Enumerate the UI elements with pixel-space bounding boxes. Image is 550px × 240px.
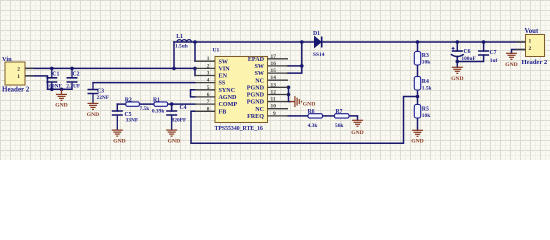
left pin numbers: [207, 56, 210, 112]
junction C7 top: [482, 40, 486, 44]
capacitor C2: [66, 68, 81, 89]
svg-text:PGND: PGND: [247, 93, 265, 99]
svg-text:R1: R1: [153, 97, 160, 103]
svg-text:SW: SW: [219, 59, 228, 65]
svg-text:14: 14: [271, 75, 277, 81]
resistor R2: [125, 97, 150, 112]
junction riser top wire: [300, 40, 304, 44]
pin 11 PGND: [268, 101, 289, 103]
wire top SW net: [174, 41, 314, 43]
svg-text:GND: GND: [55, 102, 67, 108]
svg-text:8: 8: [207, 106, 210, 112]
svg-text:2: 2: [17, 66, 20, 72]
right pin numbers: [271, 54, 277, 117]
wire Vin net horizontal: [25, 67, 195, 69]
svg-text:SW: SW: [255, 64, 264, 70]
resistor R5: [414, 105, 430, 119]
pin 5 SYNC: [195, 89, 215, 91]
ground at Vout pin2: [506, 53, 517, 59]
capacitor C7: [478, 50, 497, 64]
pin 14 NC: [268, 79, 289, 81]
svg-text:R3: R3: [422, 53, 429, 59]
wire EN tie to VIN: [194, 68, 196, 75]
svg-text:PGND: PGND: [247, 85, 265, 91]
ground below C5: [112, 130, 123, 136]
svg-text:R6: R6: [308, 109, 315, 115]
wire Vout pin2 to gnd: [512, 50, 526, 54]
wire FREQ to R6: [288, 115, 308, 117]
svg-text:PGND: PGND: [247, 100, 265, 106]
pin 4 SS: [195, 82, 215, 84]
pin 6 AGND: [195, 96, 215, 98]
pin 9 FREQ: [268, 115, 289, 117]
svg-text:1.5k: 1.5k: [422, 85, 432, 91]
pin 2 VIN: [195, 67, 215, 69]
pin 3 EN: [195, 75, 215, 77]
resistor R3: [414, 52, 430, 66]
svg-text:NC: NC: [255, 107, 264, 113]
svg-text:100NF: 100NF: [47, 83, 63, 89]
svg-text:AGND: AGND: [219, 95, 238, 101]
ground below C6: [452, 67, 463, 73]
pin 12 PGND: [268, 94, 289, 96]
svg-text:SYNC: SYNC: [219, 88, 236, 94]
svg-text:TPS55340_RTE_16: TPS55340_RTE_16: [215, 126, 264, 132]
svg-text:C1: C1: [52, 72, 59, 78]
svg-text:7: 7: [207, 99, 210, 105]
wire D1 cathode to Vout: [322, 41, 525, 43]
wire L1 riser: [173, 42, 175, 68]
header P2 Vout: [516, 28, 548, 66]
pin 8 FB: [195, 110, 215, 112]
svg-text:1: 1: [529, 39, 532, 45]
svg-text:FB: FB: [219, 109, 227, 115]
svg-text:C7: C7: [490, 50, 497, 56]
svg-text:R2: R2: [125, 97, 132, 103]
wire R7 to gnd: [349, 116, 358, 120]
wire R3 top lead: [417, 42, 419, 52]
junction C6 top: [456, 40, 460, 44]
pin 13 PGND: [268, 86, 289, 88]
svg-text:10: 10: [271, 104, 277, 110]
capacitor C5: [112, 111, 139, 130]
inductor L1: [175, 34, 191, 50]
resistor R7: [335, 109, 350, 129]
svg-text:1uf: 1uf: [490, 58, 498, 64]
junction C6 bottom tie: [456, 60, 460, 64]
svg-text:SW: SW: [255, 71, 264, 77]
svg-text:C4: C4: [180, 105, 187, 111]
capacitor C3: [88, 83, 110, 104]
svg-text:16: 16: [271, 61, 277, 67]
pin 7 COMP: [195, 103, 215, 105]
svg-text:Header 2: Header 2: [2, 85, 30, 93]
junction C4 top: [170, 102, 174, 106]
svg-text:GND: GND: [113, 138, 125, 144]
diode D1 SS14: [313, 31, 325, 58]
svg-text:2.2UF: 2.2UF: [66, 83, 81, 89]
resistor R1: [152, 97, 168, 114]
svg-text:33NF: 33NF: [126, 117, 139, 123]
svg-text:12: 12: [271, 90, 277, 96]
svg-text:5: 5: [207, 85, 210, 91]
svg-text:SS: SS: [219, 81, 226, 87]
wire R5 to gnd: [417, 119, 419, 131]
wire SW pin1 riser: [194, 42, 196, 61]
svg-text:FREQ: FREQ: [247, 114, 264, 120]
wire C6 top lead: [456, 42, 458, 51]
junction C1 bottom: [50, 88, 54, 92]
capacitor C4: [166, 105, 187, 130]
svg-text:2: 2: [529, 46, 532, 52]
resistor R6: [308, 109, 323, 129]
svg-text:4: 4: [207, 78, 210, 84]
junction EN tie: [193, 67, 197, 71]
ground after R7: [352, 120, 363, 126]
junction riser pins16: [300, 64, 304, 68]
wire R4-R5 link: [417, 90, 419, 105]
junction PGND bus pin13: [287, 86, 291, 90]
svg-text:R5: R5: [422, 107, 429, 113]
svg-text:GND: GND: [303, 102, 315, 108]
wire C5 lead top: [116, 104, 118, 111]
svg-text:11: 11: [271, 97, 276, 103]
svg-text:3: 3: [207, 71, 210, 77]
svg-text:GND: GND: [451, 76, 463, 82]
pin 10 NC: [268, 108, 289, 110]
svg-text:C6: C6: [464, 49, 471, 55]
svg-text:15: 15: [271, 68, 277, 74]
pin 16 SW: [268, 65, 289, 67]
pin 17 EPAD: [268, 58, 289, 60]
svg-text:56k: 56k: [335, 123, 343, 129]
svg-text:GND: GND: [411, 139, 423, 145]
svg-text:Header 2: Header 2: [522, 59, 548, 66]
svg-text:1: 1: [207, 56, 210, 62]
svg-text:GND: GND: [351, 130, 363, 136]
junction gnd stub: [60, 88, 64, 92]
svg-text:1: 1: [17, 74, 20, 80]
wire FB net bottom: [191, 97, 418, 144]
svg-text:10k: 10k: [422, 113, 430, 119]
wire pins16-15 riser: [288, 42, 302, 73]
svg-text:COMP: COMP: [219, 102, 238, 108]
svg-text:VIN: VIN: [219, 66, 231, 72]
capacitor C6 electrolytic: [451, 47, 477, 62]
junction R3 column top: [416, 40, 420, 44]
svg-text:C3: C3: [97, 88, 104, 94]
junction R4-R5 tap: [416, 95, 420, 99]
ground below R5: [412, 130, 423, 136]
svg-text:10k: 10k: [422, 59, 430, 65]
IC U1 TPS55340: [195, 47, 288, 132]
svg-text:4.3k: 4.3k: [308, 123, 318, 129]
svg-text:R7: R7: [336, 109, 343, 115]
wire header P1 pin1 to gnd net: [25, 76, 72, 89]
wire C7 top lead: [483, 42, 485, 51]
svg-text:U1: U1: [213, 47, 220, 53]
wire SS net: [93, 82, 195, 84]
svg-text:GND: GND: [505, 62, 517, 68]
ground below C1 C2: [56, 89, 67, 100]
left pin names: [219, 59, 238, 115]
svg-text:GND: GND: [168, 138, 180, 144]
wire COMP net: [117, 103, 195, 105]
svg-text:GND: GND: [87, 112, 99, 118]
svg-text:2: 2: [207, 63, 210, 69]
resistor R4: [414, 77, 431, 92]
ground below C4: [166, 130, 177, 136]
junction C2 top: [70, 67, 74, 71]
svg-text:EN: EN: [219, 74, 228, 80]
wire R6 to R7: [323, 115, 335, 117]
svg-text:1.5uh: 1.5uh: [175, 44, 188, 50]
svg-text:R4: R4: [422, 79, 429, 85]
svg-text:17: 17: [271, 54, 277, 60]
ground below C3: [88, 103, 99, 109]
capacitor C1: [46, 68, 62, 89]
junction PGND bus pin12: [287, 93, 291, 97]
svg-text:SS14: SS14: [313, 52, 325, 58]
svg-text:Vout: Vout: [525, 28, 539, 35]
junction L1 riser: [172, 67, 176, 71]
svg-text:820PF: 820PF: [172, 117, 187, 123]
svg-text:NC: NC: [255, 78, 264, 84]
header P1 Vin: [2, 56, 34, 93]
right pin names: [247, 57, 265, 120]
wire R3-R4 link: [417, 65, 419, 77]
ground sideways PGND: [290, 96, 302, 107]
svg-text:C2: C2: [73, 72, 80, 78]
svg-text:0.39k: 0.39k: [152, 108, 164, 114]
svg-text:100uF: 100uF: [461, 56, 476, 62]
pin 1 SW: [195, 60, 215, 62]
junction SW riser top: [193, 40, 197, 44]
junction C1 top: [50, 67, 54, 71]
svg-text:22NF: 22NF: [97, 95, 110, 101]
wire PGND bus: [289, 87, 291, 101]
svg-text:9: 9: [273, 111, 276, 117]
wire C4 lead top: [171, 104, 173, 111]
svg-text:6: 6: [207, 92, 210, 98]
pin 15 SW: [268, 72, 289, 74]
wire SYNC-AGND tie: [191, 90, 196, 97]
wire C6 C7 bottom tie: [457, 55, 483, 67]
svg-text:13: 13: [271, 82, 277, 88]
svg-text:7.5k: 7.5k: [140, 106, 150, 112]
svg-text:EPAD: EPAD: [248, 57, 265, 63]
